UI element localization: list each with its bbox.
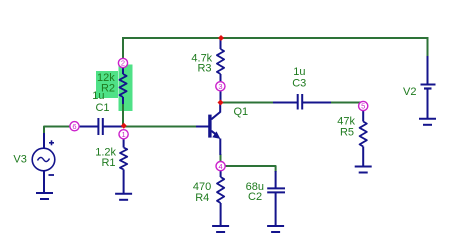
wire C3 to node 5 / R5: [331, 103, 363, 109]
svg-text:C2: C2: [248, 191, 262, 203]
C1 value label 1u: [92, 90, 104, 102]
R1 value label 1.2k: [95, 147, 116, 159]
svg-text:V3: V3: [13, 153, 26, 165]
ground below R4: [212, 226, 229, 232]
V3 name label: [13, 153, 26, 165]
svg-text:C1: C1: [95, 102, 109, 114]
wire top rail down to V2: [427, 37, 429, 57]
node 2: [118, 58, 127, 67]
wire base node to Q1 base: [122, 126, 196, 128]
battery V2 supply: [421, 56, 436, 118]
voltage source V3 (AC sine source): [32, 133, 55, 193]
svg-text:2: 2: [121, 59, 125, 68]
node 4: [216, 162, 225, 171]
junction dot top rail / R3: [218, 35, 224, 41]
R1 name label: [101, 157, 115, 169]
svg-text:3: 3: [218, 82, 222, 91]
svg-text:R4: R4: [195, 192, 209, 204]
svg-text:1: 1: [122, 130, 126, 139]
svg-text:R1: R1: [101, 157, 115, 169]
wire collector junction to C3: [221, 102, 275, 104]
R3 value label 4.7k: [191, 52, 212, 64]
svg-text:C3: C3: [292, 77, 306, 89]
svg-text:R3: R3: [197, 63, 211, 75]
ground below V2: [419, 119, 436, 125]
wire R2 bottom to base node junction: [122, 103, 124, 127]
R5 value label 47k: [337, 115, 355, 127]
svg-text:4: 4: [219, 162, 223, 171]
wire from top rail down to node 2 / R2: [122, 37, 124, 59]
C3 name label: [292, 77, 306, 89]
R4 value label 470: [193, 181, 211, 193]
resistor R4 470 emitter resistor: [217, 171, 224, 226]
wire top supply rail: [122, 37, 428, 39]
V2 name label: [403, 86, 416, 98]
capacitor C2 68u bypass: [267, 171, 285, 226]
svg-text:R2: R2: [101, 83, 115, 95]
selection highlight behind R2 labels: [96, 71, 118, 98]
svg-text:R5: R5: [340, 127, 354, 139]
C2 name label: [248, 191, 262, 203]
node 1: [119, 130, 128, 139]
svg-text:5: 5: [361, 102, 365, 111]
ground below R5: [355, 167, 372, 173]
svg-text:6: 6: [72, 122, 76, 131]
svg-text:Q1: Q1: [234, 106, 249, 118]
node 6: [70, 122, 79, 131]
R2 value label 12k: [97, 72, 115, 84]
node 5: [359, 101, 368, 110]
capacitor C1 1u coupling cap: [79, 118, 122, 135]
node 3: [216, 82, 225, 91]
ground below R1: [115, 194, 132, 200]
R5 name label: [340, 127, 354, 139]
svg-text:V2: V2: [403, 86, 416, 98]
wire node 4 to C2: [221, 166, 276, 172]
C3 value label 1u: [293, 66, 305, 78]
svg-text:1u: 1u: [293, 66, 305, 78]
resistor R5 47k load: [360, 108, 367, 166]
resistor R1 1.2k: [120, 138, 127, 193]
wire V3 to node 6: [44, 127, 71, 134]
ground below C2: [267, 226, 284, 232]
transistor Q1 NPN: [196, 104, 220, 156]
selection highlight behind R2 symbol: [119, 65, 133, 112]
R3 name label: [197, 63, 211, 75]
svg-text:47k: 47k: [337, 115, 355, 127]
C1 name label: [95, 102, 109, 114]
junction dot collector node: [218, 100, 224, 106]
C2 value label 68u: [246, 181, 264, 193]
resistor R3 4.7k collector load: [217, 39, 224, 101]
capacitor C3 1u output coupling: [273, 94, 331, 110]
R4 name label: [195, 192, 209, 204]
ground below V3: [36, 193, 53, 199]
resistor R2 12k (selected): [119, 63, 126, 104]
wire Q1 emitter down to node 4: [220, 154, 222, 166]
junction dot base node: [121, 123, 127, 129]
Q1 name label: [234, 106, 249, 118]
R2 name label: [101, 83, 115, 95]
